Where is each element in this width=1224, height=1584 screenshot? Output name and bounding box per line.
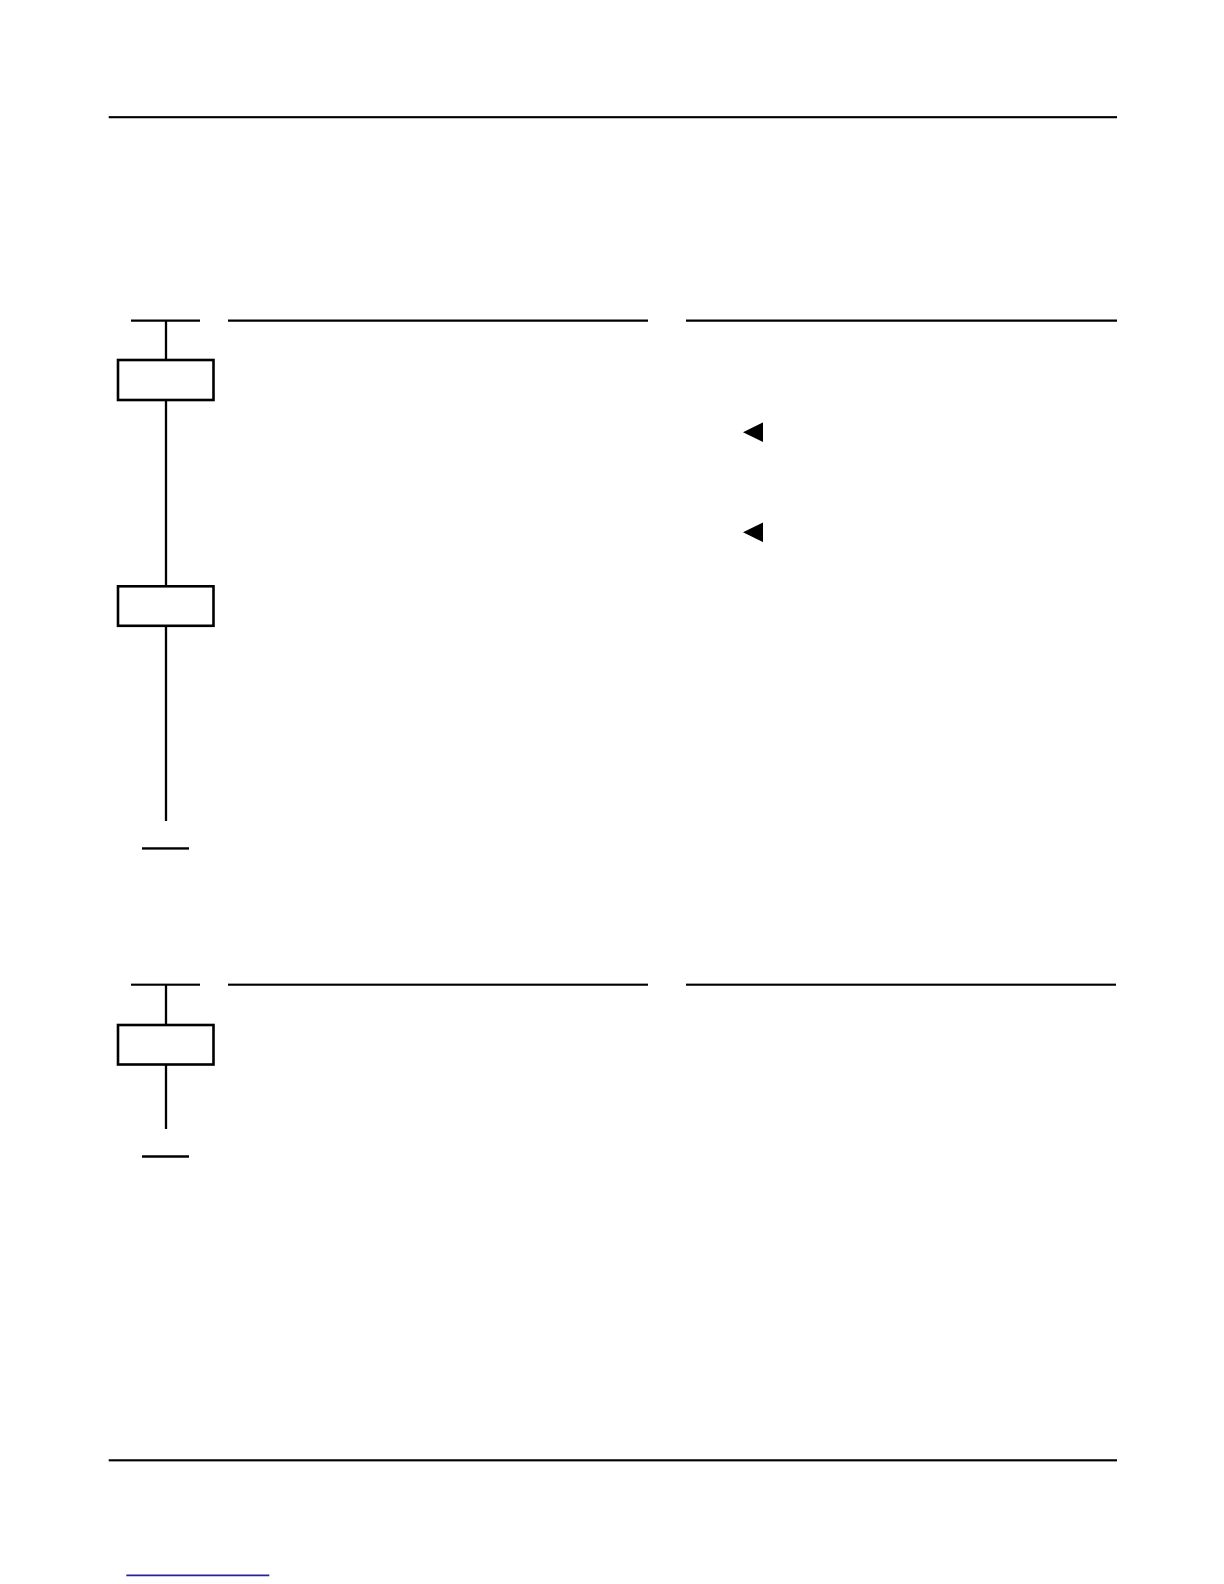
wire (box 2 down)	[165, 626, 167, 821]
wire (cap to box 1)	[165, 321, 167, 359]
rail cap (flow 2 top)	[131, 984, 200, 986]
process box 2	[118, 586, 214, 626]
process box 1	[118, 360, 214, 400]
footer rule	[109, 1459, 1117, 1461]
column rule left (row 2)	[228, 984, 648, 986]
footnote link underline	[126, 1574, 269, 1576]
marker triangle 1	[743, 422, 763, 442]
marker triangle 2	[743, 523, 763, 543]
header rule	[109, 116, 1117, 118]
wire (box 1 to box 2)	[165, 400, 167, 586]
process box 3	[118, 1025, 214, 1065]
end cap (flow 1 bottom)	[142, 847, 189, 849]
column rule right (row 1)	[686, 320, 1117, 322]
wire (cap to box 3)	[165, 985, 167, 1025]
end cap (flow 2 bottom)	[142, 1155, 189, 1157]
column rule right (row 2)	[686, 984, 1116, 986]
column rule left (row 1)	[228, 320, 648, 322]
wire (box 3 down)	[165, 1065, 167, 1130]
rail cap (flow 1 top)	[131, 320, 200, 322]
